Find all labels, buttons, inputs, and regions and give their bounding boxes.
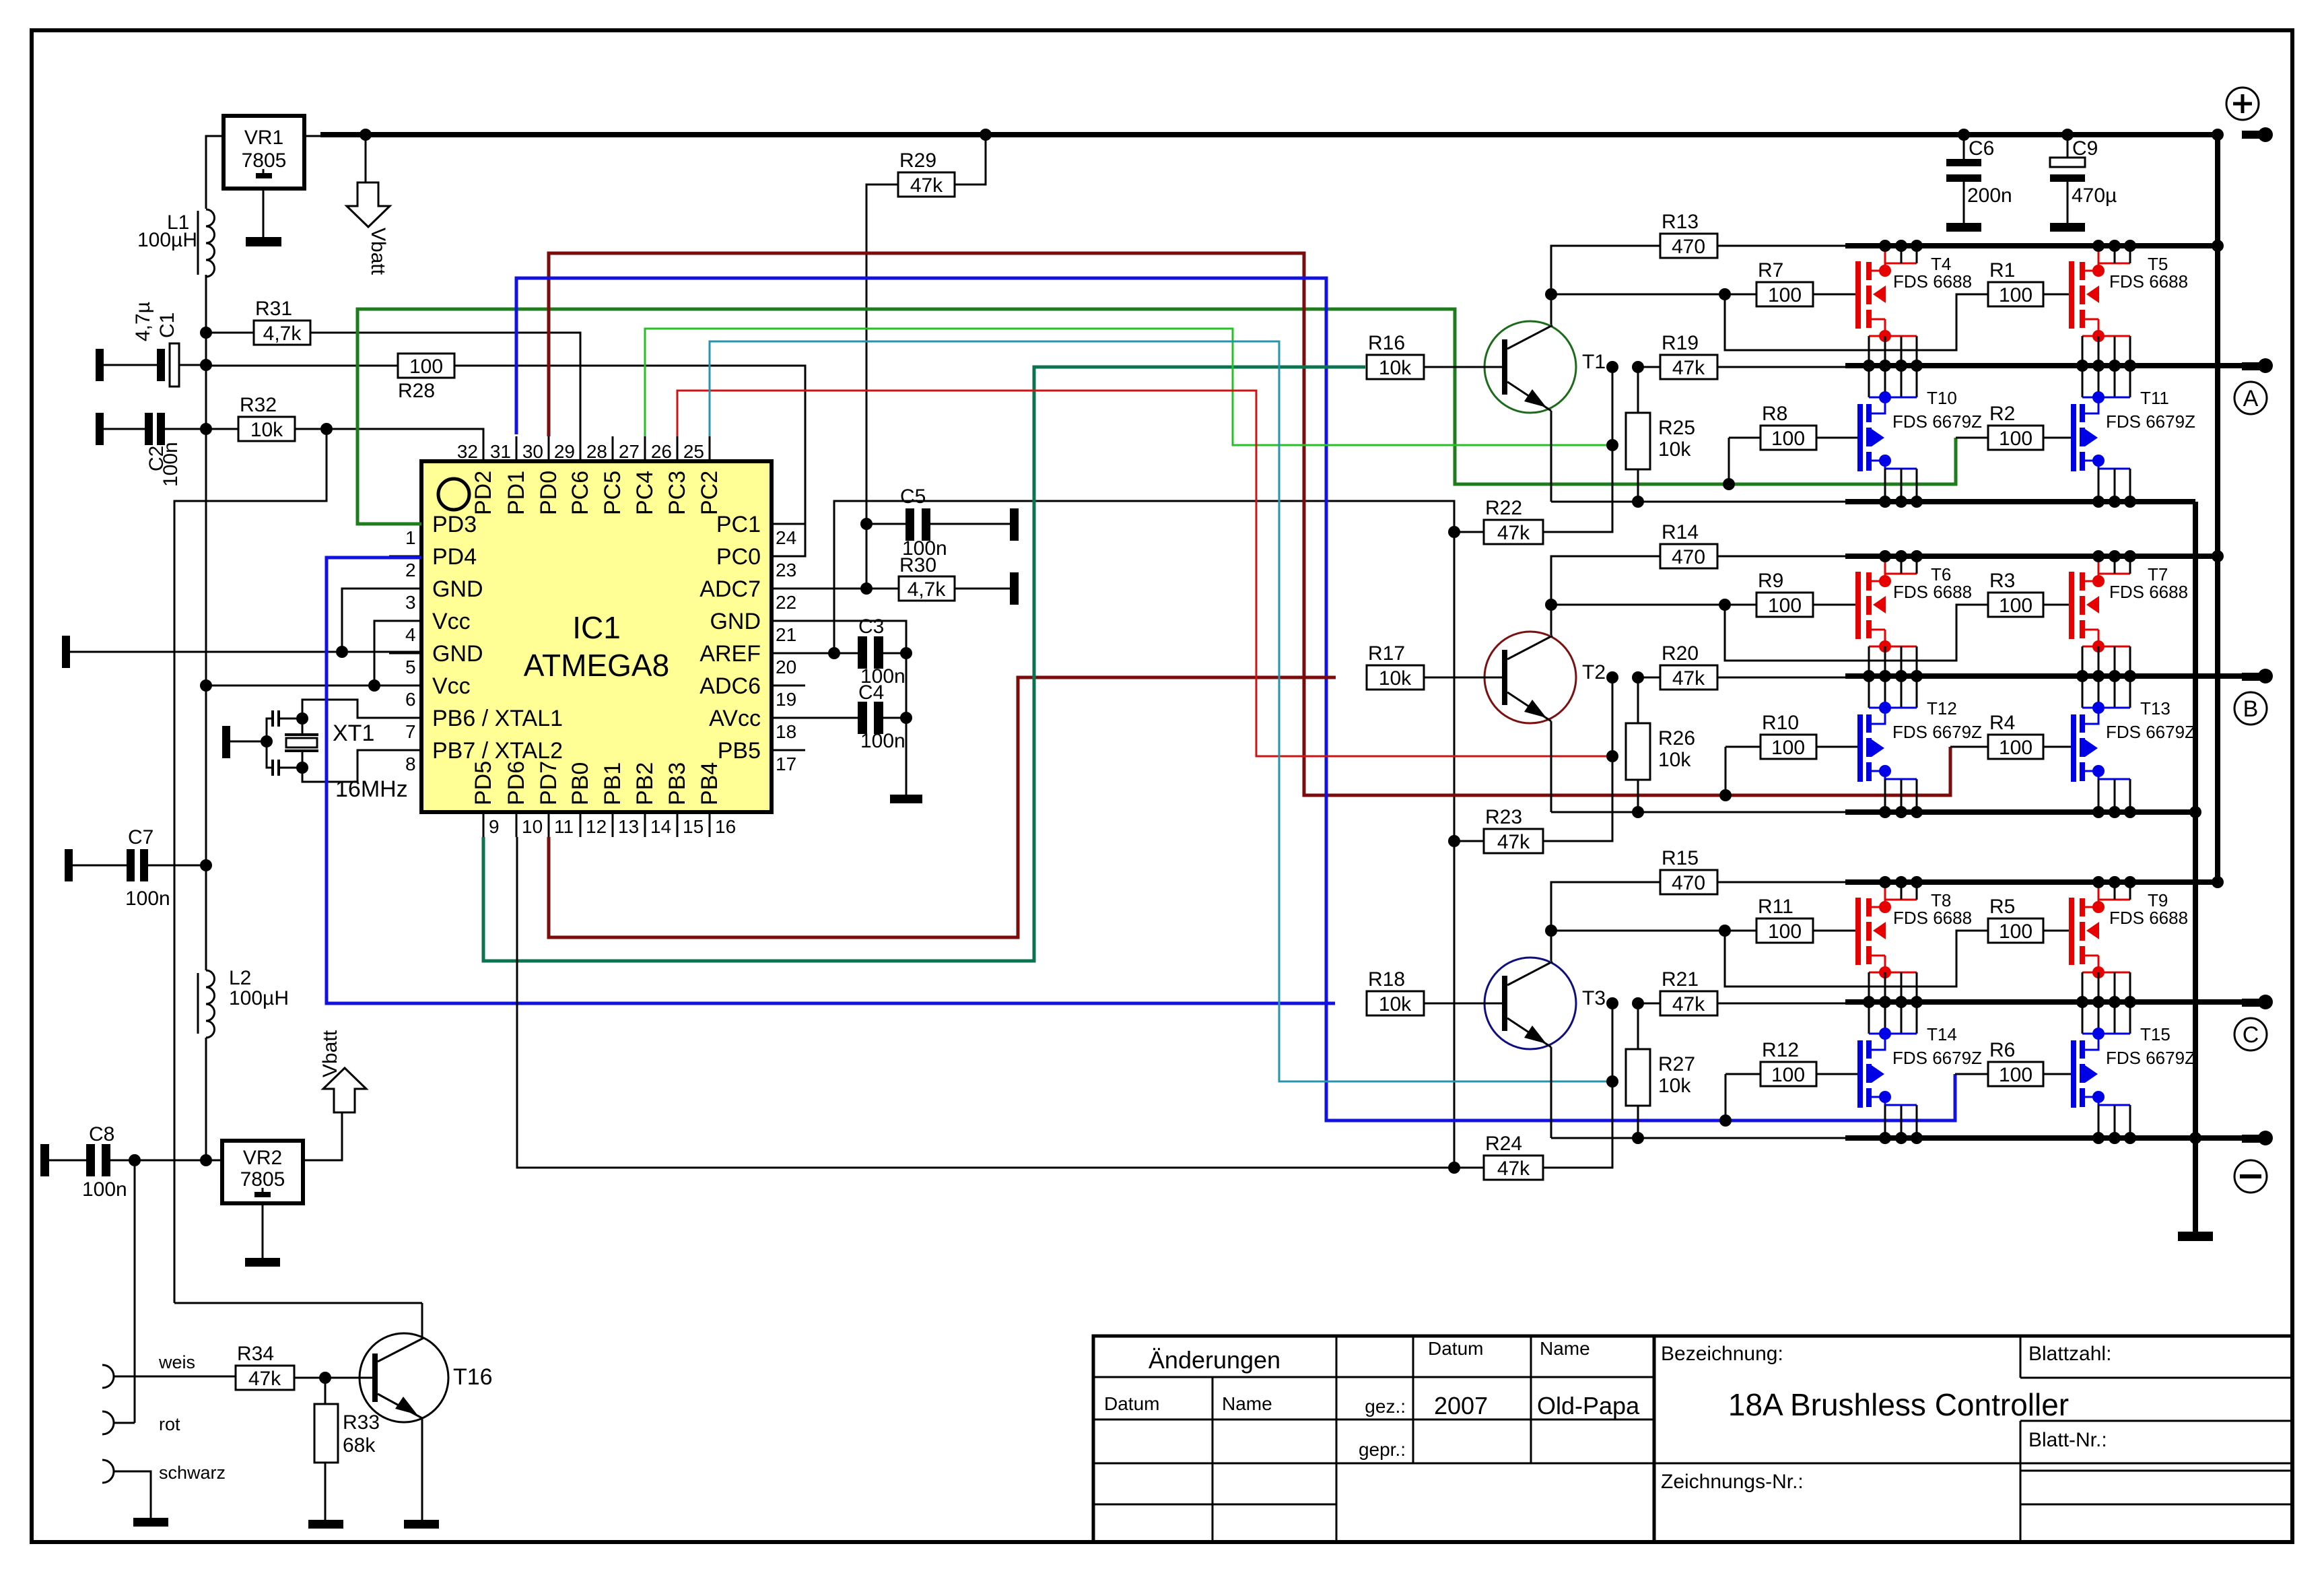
svg-text:100: 100 (1771, 1064, 1805, 1086)
capacitor C8 100n (40, 1144, 49, 1176)
resistor R7 100 gate (1756, 282, 1813, 306)
svg-text:PB7 / XTAL2: PB7 / XTAL2 (432, 738, 563, 764)
svg-text:schwarz: schwarz (159, 1463, 226, 1483)
svg-text:PB6 / XTAL1: PB6 / XTAL1 (432, 706, 563, 731)
svg-text:Blattzahl:: Blattzahl: (2028, 1343, 2111, 1365)
svg-text:R13: R13 (1662, 211, 1699, 233)
svg-text:C4: C4 (858, 681, 884, 704)
resistor R12 100 (1761, 1062, 1816, 1086)
pin3 GND stair wire (342, 589, 421, 652)
resistor R6 100 (1988, 1062, 2043, 1086)
svg-text:Vbatt: Vbatt (319, 1030, 341, 1077)
svg-text:100: 100 (1999, 284, 2032, 306)
ground schwarz (133, 1518, 168, 1527)
svg-text:R2: R2 (1989, 403, 2015, 425)
connector rot (102, 1411, 114, 1434)
svg-text:R26: R26 (1658, 727, 1695, 749)
svg-text:8: 8 (405, 754, 416, 774)
wire C5 node to ADC7 (866, 524, 868, 589)
svg-text:47k: 47k (1497, 522, 1530, 544)
wire T3 emitter (1550, 1047, 1552, 1138)
svg-text:PB3: PB3 (664, 762, 690, 805)
wire R31 left (206, 332, 254, 334)
IC pin 30 PD0 top stub (548, 436, 550, 461)
svg-text:weis: weis (158, 1352, 195, 1372)
svg-text:T12: T12 (1927, 698, 1957, 718)
wire PC4 bright green feedback A (645, 329, 1612, 445)
resistor R19 47k (1660, 355, 1717, 379)
svg-text:XT1: XT1 (333, 721, 374, 746)
gate U-link phase 2 (1725, 605, 1988, 661)
svg-text:PC2: PC2 (697, 471, 722, 515)
IC pin 22 ADC7 right stub (772, 588, 805, 590)
svg-text:VR1: VR1 (244, 127, 283, 149)
+ chain vertical right (2215, 135, 2220, 882)
svg-text:T2: T2 (1582, 661, 1606, 683)
svg-text:13: 13 (618, 816, 639, 837)
svg-text:11: 11 (554, 816, 574, 837)
svg-text:24: 24 (776, 527, 796, 548)
svg-text:C8: C8 (89, 1123, 114, 1145)
svg-text:10k: 10k (1379, 993, 1412, 1015)
svg-text:28: 28 (586, 441, 607, 462)
svg-text:10: 10 (522, 816, 543, 837)
svg-text:FDS 6679Z: FDS 6679Z (2106, 411, 2195, 432)
capacitor C1 4,7u polarized (96, 349, 104, 381)
wire T1 emitter (1550, 411, 1552, 502)
resistor R27 10k vertical (1626, 1049, 1650, 1106)
capacitor C6 200n (1963, 135, 1965, 159)
svg-text:470µ: 470µ (2072, 185, 2117, 207)
svg-text:R17: R17 (1368, 642, 1405, 665)
IC pin 27 PC4 top stub (644, 436, 646, 461)
resistor R34 47k (236, 1366, 294, 1390)
svg-text:100: 100 (409, 356, 443, 378)
transistor T1 (1484, 321, 1576, 413)
svg-text:Bezeichnung:: Bezeichnung: (1661, 1343, 1783, 1365)
svg-text:Zeichnungs-Nr.:: Zeichnungs-Nr.: (1661, 1471, 1804, 1493)
svg-text:47k: 47k (1497, 831, 1530, 853)
svg-text:47k: 47k (1672, 667, 1705, 690)
svg-text:PD1: PD1 (504, 471, 529, 515)
capacitor C4 100n (772, 717, 858, 719)
svg-text:T15: T15 (2140, 1024, 2171, 1044)
wire to Vbatt arrow (365, 135, 367, 182)
IC pin 10 PD6 bottom stub (516, 812, 518, 837)
svg-text:FDS 6688: FDS 6688 (1893, 908, 1972, 928)
svg-text:IC1: IC1 (572, 610, 621, 645)
svg-text:R23: R23 (1485, 806, 1522, 828)
svg-text:23: 23 (776, 560, 796, 580)
gate U-link phase 3 (1725, 931, 1988, 987)
svg-text:12: 12 (586, 816, 607, 837)
ground bar crystal (222, 726, 230, 758)
svg-text:10k: 10k (1658, 749, 1691, 771)
VR2 ground wire (262, 1203, 264, 1258)
svg-text:FDS 6679Z: FDS 6679Z (1892, 722, 1982, 742)
P-FET symbol (1885, 574, 1917, 581)
IC pin 17 PB5 right stub (772, 749, 805, 751)
svg-text:R19: R19 (1662, 332, 1699, 354)
svg-text:7805: 7805 (242, 149, 287, 172)
svg-text:2: 2 (405, 560, 416, 580)
svg-text:PC1: PC1 (716, 512, 761, 537)
resistor R17 10k (1367, 665, 1424, 690)
svg-text:29: 29 (554, 441, 575, 462)
voltage regulator VR1 7805 (224, 116, 304, 189)
wire R13 to collector (1551, 246, 1660, 325)
svg-text:10k: 10k (250, 419, 283, 441)
transistor T16 (360, 1333, 448, 1422)
svg-text:27: 27 (619, 441, 640, 462)
svg-text:T1: T1 (1582, 351, 1606, 373)
svg-text:22: 22 (776, 592, 796, 613)
svg-text:Blatt-Nr.:: Blatt-Nr.: (2028, 1429, 2107, 1451)
svg-text:Name: Name (1222, 1393, 1272, 1414)
IC pin 7 PB6 / XTAL1 left stub (389, 717, 421, 719)
svg-text:100: 100 (1999, 595, 2032, 617)
inductor L2 100uH (197, 973, 199, 1034)
IC pin 23 PC0 right stub (772, 556, 805, 558)
wire C2-node to T16 collector (174, 1302, 422, 1304)
svg-text:gez.:: gez.: (1365, 1396, 1406, 1417)
svg-text:R30: R30 (899, 554, 936, 576)
low-gate link phase 3 (1725, 1074, 1727, 1121)
source rail phase C (1551, 1137, 1845, 1139)
IC pin 15 PB3 bottom stub (677, 812, 679, 837)
svg-text:4: 4 (405, 624, 416, 645)
svg-text:470: 470 (1672, 236, 1705, 258)
svg-text:9: 9 (489, 816, 500, 837)
svg-text:FDS 6688: FDS 6688 (2109, 582, 2188, 602)
ground bar pin5 GND (62, 636, 70, 668)
IC pin 1 PD3 left stub (389, 523, 421, 525)
svg-text:14: 14 (650, 816, 671, 837)
svg-text:C1: C1 (156, 312, 178, 338)
svg-text:T10: T10 (1927, 388, 1957, 408)
ground chain vertical right (2193, 502, 2198, 1232)
output bus phase B (1845, 673, 2242, 679)
svg-text:T16: T16 (453, 1364, 493, 1390)
svg-text:PC4: PC4 (632, 471, 658, 515)
IC pin 9 PD5 bottom stub (483, 812, 485, 837)
resistor R28 100 to PC0 (398, 354, 454, 378)
wire R14 to collector (1551, 556, 1660, 635)
+ supply rail top (304, 135, 323, 137)
svg-text:100: 100 (1999, 428, 2032, 450)
svg-text:100: 100 (1771, 428, 1805, 450)
svg-text:47k: 47k (1672, 993, 1705, 1015)
wire R31 right to pin29 PC5 (310, 333, 580, 436)
ground bar C3/C4 (890, 795, 922, 803)
svg-text:R34: R34 (237, 1343, 274, 1365)
capacitor C7 100n (65, 849, 73, 881)
svg-text:R31: R31 (255, 298, 292, 320)
svg-text:R4: R4 (1989, 712, 2015, 734)
svg-text:B: B (2243, 696, 2259, 722)
N-FET symbol (1868, 366, 1870, 397)
R12 left link wire (1725, 1073, 1761, 1075)
svg-text:15: 15 (683, 816, 704, 837)
svg-text:Vcc: Vcc (432, 673, 471, 699)
R8 left link wire (1729, 437, 1761, 439)
wire VR1 ground (263, 189, 265, 237)
IC pin 13 PB1 bottom stub (612, 812, 614, 837)
svg-text:FDS 6688: FDS 6688 (1893, 582, 1972, 602)
svg-text:R27: R27 (1658, 1053, 1695, 1075)
voltage regulator VR2 7805 (222, 1141, 303, 1203)
ground bar C5 (1010, 508, 1019, 541)
ground R33 (308, 1520, 343, 1529)
svg-text:31: 31 (490, 441, 511, 462)
svg-text:4,7µ: 4,7µ (132, 302, 154, 341)
resistor R32 10k (238, 417, 295, 441)
svg-text:FDS 6679Z: FDS 6679Z (2106, 722, 2195, 742)
svg-text:R8: R8 (1762, 403, 1787, 425)
resistor R4 100 (1988, 735, 2043, 759)
resistor R9 100 gate (1756, 593, 1813, 617)
IC pin 28 PC5 top stub (612, 436, 614, 461)
resistor R23 47k pull (1484, 829, 1543, 853)
svg-text:C9: C9 (2072, 137, 2098, 160)
svg-text:R3: R3 (1989, 570, 2015, 592)
svg-text:16MHz: 16MHz (335, 776, 408, 802)
N-FET symbol (2082, 366, 2084, 397)
resistor R20 47k (1660, 665, 1717, 690)
svg-text:16: 16 (715, 816, 736, 837)
svg-text:R14: R14 (1662, 521, 1699, 543)
svg-text:100: 100 (1768, 595, 1802, 617)
svg-text:PB0: PB0 (568, 762, 593, 805)
svg-text:100n: 100n (860, 730, 905, 752)
drain bus phase A (1845, 243, 2218, 248)
svg-text:L2: L2 (229, 967, 251, 989)
svg-text:C7: C7 (128, 826, 153, 848)
resistor R22 47k pull (1484, 520, 1543, 544)
svg-text:10k: 10k (1658, 438, 1691, 461)
svg-text:R33: R33 (343, 1411, 380, 1434)
resistor R21 47k (1660, 991, 1717, 1015)
resistor R16 10k (1367, 355, 1424, 379)
+ rail terminal stub (2242, 131, 2263, 139)
svg-text:100n: 100n (125, 888, 170, 910)
svg-text:100: 100 (1999, 1064, 2032, 1086)
P-FET symbol (1885, 900, 1917, 907)
terminal circle minus (2234, 1160, 2267, 1193)
svg-text:GND: GND (432, 576, 483, 602)
resistor R26 10k vertical (1626, 723, 1650, 780)
svg-text:18A Brushless Controller: 18A Brushless Controller (1728, 1387, 2069, 1422)
IC pin 4 Vcc left stub (389, 620, 421, 622)
ground T16 emitter (404, 1520, 439, 1529)
svg-text:gepr.:: gepr.: (1359, 1439, 1406, 1460)
transistor T2 (1484, 632, 1576, 723)
P-FET symbol (2098, 263, 2130, 271)
wire VR2 out to Vbatt arrow (303, 1112, 342, 1160)
P-FET symbol (1885, 263, 1917, 271)
svg-text:C: C (2243, 1022, 2259, 1048)
wire L1 to C1 node (205, 275, 207, 365)
svg-text:ADC6: ADC6 (699, 673, 761, 699)
resistor R3 100 (1988, 593, 2043, 617)
capacitor C5 100n (860, 518, 873, 530)
svg-text:Datum: Datum (1104, 1393, 1159, 1414)
svg-text:FDS 6688: FDS 6688 (2109, 908, 2188, 928)
low-gate link phase 2 (1725, 747, 1727, 795)
svg-text:100µH: 100µH (229, 987, 289, 1009)
svg-text:100: 100 (1999, 737, 2032, 759)
svg-text:AVcc: AVcc (709, 706, 761, 731)
svg-text:PB4: PB4 (697, 762, 722, 805)
svg-text:FDS 6688: FDS 6688 (1893, 271, 1972, 292)
IC pin 19 ADC6 right stub (772, 685, 805, 687)
svg-text:100: 100 (1768, 284, 1802, 306)
low-gate link phase 1 (1728, 438, 1730, 484)
svg-text:20: 20 (776, 657, 796, 677)
resistor R18 10k (1367, 991, 1424, 1015)
terminal circle + (2226, 88, 2259, 120)
connector weis (102, 1365, 114, 1388)
svg-text:FDS 6679Z: FDS 6679Z (2106, 1048, 2195, 1068)
wire PD1 blue to phase C low gates (516, 278, 1955, 1121)
svg-text:GND: GND (432, 641, 483, 667)
svg-text:3: 3 (405, 592, 416, 613)
svg-text:T14: T14 (1927, 1024, 1957, 1044)
resistor R1 100 (1988, 282, 2043, 306)
svg-text:ATMEGA8: ATMEGA8 (524, 648, 669, 683)
wire T2 emitter (1550, 721, 1552, 812)
svg-text:25: 25 (683, 441, 704, 462)
output bus phase C (1845, 999, 2242, 1005)
svg-text:PD7: PD7 (536, 761, 561, 805)
resistor R8 100 (1761, 426, 1816, 450)
svg-text:Vcc: Vcc (432, 609, 471, 634)
svg-text:R16: R16 (1368, 332, 1405, 354)
svg-text:ADC7: ADC7 (699, 576, 761, 602)
svg-text:R21: R21 (1662, 968, 1699, 991)
IC pin 16 PB4 bottom stub (709, 812, 711, 837)
svg-text:47k: 47k (910, 174, 943, 197)
drain bus phase C (1845, 879, 2218, 885)
svg-text:PB5: PB5 (718, 738, 761, 764)
resistor R2 100 (1988, 426, 2043, 450)
svg-text:PC6: PC6 (568, 471, 593, 515)
P-FET symbol (2098, 574, 2130, 581)
wire gate node (1551, 294, 1756, 296)
IC pin 26 PC3 top stub (677, 436, 679, 461)
svg-text:PD2: PD2 (471, 471, 496, 515)
N-FET symbol (2082, 676, 2084, 708)
resistor R10 100 (1761, 735, 1816, 759)
svg-text:1: 1 (405, 527, 416, 548)
svg-text:PD4: PD4 (432, 544, 477, 570)
svg-text:C3: C3 (858, 615, 884, 638)
svg-text:PC5: PC5 (600, 471, 625, 515)
resistor R15 470 (1660, 870, 1717, 894)
IC pin 29 PC6 top stub (580, 436, 582, 461)
wire PD7 maroon to T2 base (549, 677, 1336, 937)
ground symbol bottom right (2178, 1232, 2213, 1241)
N-FET symbol (1868, 676, 1870, 708)
svg-text:VR2: VR2 (243, 1147, 282, 1169)
wire gate node (1551, 604, 1756, 606)
pin6 Vcc wire (206, 685, 421, 687)
svg-text:100n: 100n (82, 1178, 127, 1201)
svg-text:47k: 47k (248, 1368, 281, 1390)
IC pin 31 PD1 top stub (516, 436, 518, 461)
wire PD0 maroon to phase B low gates (549, 253, 1950, 795)
svg-text:R1: R1 (1989, 259, 2015, 281)
svg-text:10k: 10k (1379, 357, 1412, 379)
svg-text:R11: R11 (1758, 896, 1793, 918)
svg-text:C6: C6 (1969, 137, 1994, 160)
pin4 Vcc stair wire (374, 621, 421, 686)
wire R22 up to base line (1543, 367, 1612, 532)
wire C1 node down to L2 (205, 686, 207, 865)
svg-text:PD3: PD3 (432, 512, 477, 537)
svg-text:10k: 10k (1379, 667, 1412, 690)
crystal load capacitor bottom (271, 760, 274, 776)
title block (1093, 1336, 2292, 1542)
ground bar R30 (1010, 572, 1019, 605)
svg-text:Old-Papa: Old-Papa (1537, 1392, 1640, 1419)
IC pin 3 GND left stub (389, 588, 421, 590)
resistor R11 100 gate (1756, 918, 1813, 943)
wire GND pin21 to C3/C4 ground (772, 621, 906, 653)
svg-text:100µH: 100µH (137, 229, 197, 251)
svg-text:T3: T3 (1582, 987, 1606, 1009)
svg-text:Datum: Datum (1428, 1338, 1483, 1359)
svg-text:200n: 200n (1967, 185, 2012, 207)
wire PD5 dark teal-green to T1 base (483, 367, 1365, 961)
svg-text:47k: 47k (1672, 357, 1705, 379)
svg-text:100: 100 (1999, 921, 2032, 943)
output bus phase A (1845, 363, 2242, 368)
drain bus phase B (1845, 554, 2218, 559)
svg-text:C5: C5 (900, 486, 926, 508)
wire PC3 red feedback B (677, 391, 1613, 756)
svg-text:R6: R6 (1989, 1039, 2015, 1061)
junction dot Vbatt branch (360, 129, 372, 141)
svg-text:7805: 7805 (240, 1168, 285, 1191)
IC pin 25 PC2 top stub (709, 436, 711, 461)
IC pin 32 PD2 top stub (483, 436, 485, 461)
svg-text:470: 470 (1672, 546, 1705, 568)
svg-text:PD6: PD6 (504, 761, 529, 805)
svg-text:R7: R7 (1758, 259, 1783, 281)
svg-text:PD5: PD5 (471, 761, 496, 805)
svg-text:AREF: AREF (699, 641, 761, 667)
svg-text:26: 26 (651, 441, 672, 462)
IC pin 8 PB7 / XTAL2 left stub (389, 749, 421, 751)
IC pin 24 PC1 right stub (772, 523, 805, 525)
svg-text:17: 17 (776, 754, 796, 774)
wire PD6 to R24 (517, 837, 1486, 1168)
svg-text:21: 21 (776, 624, 796, 645)
gate U-link phase 1 (1725, 294, 1988, 350)
svg-text:FDS 6679Z: FDS 6679Z (1892, 411, 1982, 432)
crystal load capacitor top (271, 710, 274, 727)
svg-text:10k: 10k (1658, 1075, 1691, 1097)
IC pin 2 PD4 left stub (389, 556, 421, 558)
resistor R31 4,7k (254, 321, 310, 345)
transistor T3 (1484, 958, 1576, 1049)
R10 left link wire (1725, 746, 1761, 748)
IC pin 12 PB0 bottom stub (580, 812, 582, 837)
resistor R24 47k pull (1484, 1156, 1543, 1180)
IC pin 18 AVcc right stub (772, 717, 805, 719)
svg-text:32: 32 (457, 441, 478, 462)
